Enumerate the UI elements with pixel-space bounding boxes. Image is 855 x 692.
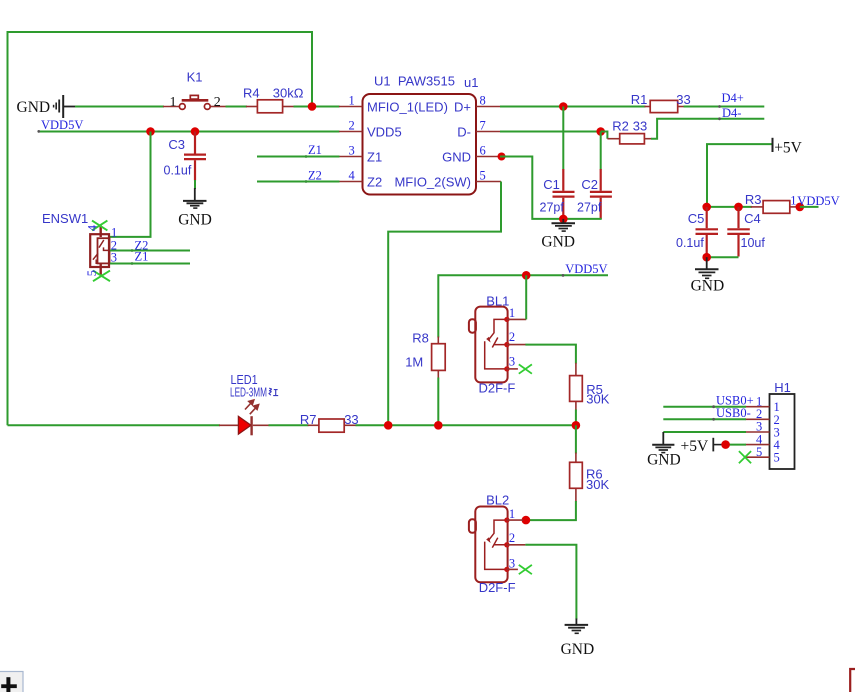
wire: junction down to R6 <box>575 425 577 453</box>
svg-text:7: 7 <box>480 118 486 132</box>
resistor R7 33 <box>300 412 359 432</box>
svg-text:3: 3 <box>509 557 515 571</box>
wire: VDD5V rail to U1 pin 2 <box>40 131 340 133</box>
svg-text:30K: 30K <box>586 477 609 492</box>
svg-text:1: 1 <box>111 225 117 239</box>
junction node VDD5V / BL1 pin1 <box>522 271 531 280</box>
earth ground symbol (below BL2) <box>561 619 595 658</box>
no-connect X at H1 pin5 <box>739 451 751 463</box>
H1 pin 5 <box>746 456 770 458</box>
svg-text:Z1: Z1 <box>367 150 382 165</box>
capacitor C1 27pf <box>540 107 575 220</box>
rotary encoder switch ENSW1 <box>42 211 117 281</box>
net label Z1 (ENSW1 side) <box>131 249 149 265</box>
svg-text:1: 1 <box>509 507 515 521</box>
U1 pin 2 VDD5 <box>339 131 363 133</box>
svg-text:C1: C1 <box>543 177 560 192</box>
power port +5V (at H1 pin4, bar style) <box>681 438 723 455</box>
svg-text:MFIO_2(SW): MFIO_2(SW) <box>394 175 471 190</box>
svg-text:D2F-F: D2F-F <box>479 580 516 595</box>
wire: R6 down to BL2 pin1 <box>527 501 576 520</box>
svg-text:33: 33 <box>633 119 647 134</box>
wire: BL1 pin2 over to R5 <box>525 345 576 364</box>
wire: R8 down to LED row <box>437 378 439 426</box>
svg-text:33: 33 <box>676 92 690 107</box>
wire: +5V to H1 pin4 <box>722 444 746 446</box>
junction node U1 pin6 <box>498 153 506 161</box>
svg-text:R8: R8 <box>412 330 429 345</box>
svg-text:R2: R2 <box>612 119 629 134</box>
power ground symbol GND (left, bar style) <box>17 95 77 118</box>
junction node VDD5V / C3 <box>191 127 200 136</box>
junction node +5V / C4 <box>734 203 743 212</box>
svg-text:27pf: 27pf <box>540 201 565 215</box>
resistor R5 30K <box>570 363 610 411</box>
svg-text:VDD5V: VDD5V <box>41 118 83 132</box>
wire: net VDD5V stub at R3 <box>800 206 819 208</box>
net label Z1 (U1 side) <box>305 143 322 158</box>
svg-text:D2F-F: D2F-F <box>479 381 516 396</box>
svg-text:30K: 30K <box>586 392 609 407</box>
svg-text:ENSW1: ENSW1 <box>42 211 88 226</box>
net label USB0+ <box>712 394 753 409</box>
wire: D- from U1 pin7 to C2/R2 <box>500 131 601 133</box>
wire: R4 to U1 pin 1 <box>294 106 340 108</box>
svg-text:u1: u1 <box>464 75 478 90</box>
microswitch BL2 <box>469 492 532 595</box>
earth ground symbol (below C3) <box>178 188 212 229</box>
junction node R4 / U1 pin1 <box>308 102 317 111</box>
svg-text:VDD5: VDD5 <box>367 125 402 140</box>
junction node LED row / U1 pin5 <box>384 421 393 430</box>
earth ground symbol (at H1 pin3) <box>647 432 681 468</box>
svg-text:5: 5 <box>756 445 762 459</box>
svg-text:GND: GND <box>647 451 681 468</box>
LED LED1 LED-3MM red <box>219 372 278 435</box>
resistor R3 <box>745 192 798 213</box>
svg-text:C3: C3 <box>168 137 185 152</box>
svg-text:5: 5 <box>480 168 486 182</box>
svg-text:0.1uf: 0.1uf <box>676 236 704 250</box>
svg-text:LED-3MM: LED-3MM <box>230 385 267 400</box>
op-amp-style IC U1 PAW3515 <box>339 74 501 195</box>
wire: ENSW1 pin1 riser to VDD5V <box>110 132 151 237</box>
wire: LED1 to R7 <box>269 424 309 426</box>
microswitch BL1 <box>469 293 532 395</box>
svg-text:R7: R7 <box>300 412 317 427</box>
wire: R5 down to LED row <box>575 410 577 426</box>
net label D4+ <box>718 91 744 108</box>
resistor R8 1M <box>405 330 445 378</box>
U1 pin 1 MFIO_1(LED) <box>339 106 363 108</box>
earth ground symbol (below C1/C2) <box>541 219 575 251</box>
svg-text:5: 5 <box>85 270 99 276</box>
junction node +5V / C5 <box>702 203 711 212</box>
wire: net MFIO_1 left loop (LED row to K1 row) <box>8 32 313 425</box>
wire: net Z1 stub at ENSW1 <box>110 263 190 265</box>
net label VDD5V (mid) <box>562 262 608 277</box>
wire: D+ from U1 pin8 to R1 <box>500 106 646 108</box>
svg-text:R4: R4 <box>243 85 260 100</box>
svg-text:Z1: Z1 <box>135 249 149 263</box>
wire: net USB0+ into H1 pin1 <box>663 406 746 408</box>
net label Z2 (ENSW1 side) <box>131 238 149 252</box>
junction node D+ / C1 <box>559 102 568 111</box>
svg-text:6: 6 <box>480 143 486 157</box>
wire: U1 pin5 MFIO_2(SW) down-around to LED row <box>388 182 501 426</box>
svg-text:C2: C2 <box>581 177 598 192</box>
svg-text:1: 1 <box>509 306 515 320</box>
wire: VDD5V mid rail <box>438 274 608 276</box>
svg-text:GND: GND <box>561 641 595 658</box>
selection rectangle corner (bottom right) <box>850 669 855 692</box>
connector H1 <box>746 380 795 469</box>
svg-text:C4: C4 <box>744 211 761 226</box>
svg-text:+5V: +5V <box>774 139 802 156</box>
svg-text:4: 4 <box>86 224 100 231</box>
wire: BL2 pin2 to GND <box>525 545 576 620</box>
svg-text:1: 1 <box>790 194 796 208</box>
svg-text:Z2: Z2 <box>308 169 322 183</box>
H1 pin 4 <box>746 444 770 446</box>
svg-text:GND: GND <box>442 150 471 165</box>
junction node R3 / VDD5V stub <box>796 203 805 212</box>
wire: R2 up to net D4- <box>651 119 764 139</box>
wire: net USB0- into H1 pin2 <box>663 418 746 420</box>
svg-text:C5: C5 <box>688 211 705 226</box>
svg-text:3: 3 <box>349 143 355 157</box>
junction node D- / C2 <box>596 127 605 136</box>
wire: D- jog into R2 <box>601 132 608 139</box>
wire: net Z1 into U1 pin3 <box>257 156 340 158</box>
wire: K1 pin2 to R4 <box>226 106 248 108</box>
U1 pin 7 D- <box>476 131 501 133</box>
svg-text:2: 2 <box>349 118 355 132</box>
earth ground symbol (below C5/C4) <box>691 257 725 294</box>
wire: C4 bottom to C5 bottom <box>707 256 739 258</box>
net label VDD5V (left) <box>37 118 83 133</box>
svg-text:D-: D- <box>457 125 471 140</box>
junction node +5V / H1 pin4 <box>721 440 730 449</box>
capacitor C4 10uf <box>727 207 765 257</box>
svg-text:D+: D+ <box>454 100 471 115</box>
U1 pin 8 D+ <box>476 106 501 108</box>
power port +5V (top right, bar style) <box>773 138 803 157</box>
svg-text:2: 2 <box>509 330 515 344</box>
svg-text:1: 1 <box>349 93 355 107</box>
junction node C1 bottom / GND <box>559 215 568 224</box>
capacitor C2 27pf <box>577 132 612 220</box>
svg-text:H1: H1 <box>774 380 791 395</box>
wire: LED row left segment <box>8 424 221 426</box>
resistor R6 30K <box>570 453 610 502</box>
svg-text:2: 2 <box>509 531 515 545</box>
wire: BL1 pin1 to VDD5V <box>525 275 527 319</box>
resistor R4 30kOhm <box>243 85 304 112</box>
svg-text:3: 3 <box>509 355 515 369</box>
svg-text:MFIO_1(LED): MFIO_1(LED) <box>367 100 448 115</box>
svg-text:GND: GND <box>178 212 212 229</box>
wire: H1 pin3 to GND <box>663 431 746 433</box>
capacitor C5 0.1uf <box>676 207 718 257</box>
svg-text:5: 5 <box>774 451 780 465</box>
svg-text:GND: GND <box>541 234 575 251</box>
svg-text:2: 2 <box>214 95 221 110</box>
svg-text:27pf: 27pf <box>577 201 602 215</box>
svg-text:8: 8 <box>480 93 486 107</box>
svg-text:USB0-: USB0- <box>716 406 751 420</box>
svg-text:D4-: D4- <box>722 106 741 120</box>
junction node C5 bottom / GND <box>702 253 711 262</box>
resistor R1 33 <box>631 92 691 112</box>
U1 pin 4 Z2 <box>339 181 363 183</box>
H1 pin 1 <box>746 406 770 408</box>
U1 pin 6 GND <box>476 156 501 158</box>
svg-text:30kΩ: 30kΩ <box>273 85 304 100</box>
svg-text:D4+: D4+ <box>722 91 744 105</box>
wire: +5V riser (top right) <box>707 144 772 207</box>
svg-text:GND: GND <box>17 99 51 116</box>
svg-text:R3: R3 <box>745 192 762 207</box>
switch K1 (tact switch) <box>163 70 226 111</box>
svg-text:K1: K1 <box>187 70 203 85</box>
svg-text:VDD5V: VDD5V <box>797 194 839 208</box>
svg-text:U1 PAW3515: U1 PAW3515 <box>374 74 455 89</box>
svg-text:GND: GND <box>691 277 725 294</box>
wire: U1 pin6 GND to C1/C2 bottoms <box>500 157 602 219</box>
capacitor C3 0.1uf <box>164 132 207 181</box>
svg-text:Z2: Z2 <box>367 175 382 190</box>
U1 pin 5 MFIO_2(SW) <box>476 181 501 183</box>
H1 pin 2 <box>746 418 770 420</box>
svg-text:R1: R1 <box>631 92 648 107</box>
wire: R7 to R5/R6 column <box>356 424 576 426</box>
toolbar add button (+) bottom left <box>0 672 23 692</box>
svg-text:4: 4 <box>349 168 356 182</box>
net label Z2 (U1 side) <box>305 169 322 183</box>
svg-text:BL2: BL2 <box>486 492 509 507</box>
svg-text:Z1: Z1 <box>308 143 322 157</box>
resistor R2 33 <box>607 119 652 144</box>
svg-text:VDD5V: VDD5V <box>565 262 607 276</box>
junction node LED row / R5 / R6 <box>572 421 581 430</box>
H1 pin 3 <box>746 431 770 433</box>
wire: R1 to net D4+ <box>684 106 765 108</box>
net label USB0- <box>712 406 751 421</box>
junction node VDD5V / ENSW1 branch <box>146 127 155 136</box>
wire: GND to K1 pin1 <box>75 106 164 108</box>
wire: net Z2 into U1 pin4 <box>257 181 340 183</box>
svg-text:+5V: +5V <box>681 438 709 455</box>
wire: C3 to GND <box>194 180 196 189</box>
svg-text:10uf: 10uf <box>741 236 766 250</box>
svg-text:1: 1 <box>170 95 177 110</box>
svg-text:0.1uf: 0.1uf <box>164 164 192 178</box>
wire: net Z2 stub at ENSW1 <box>110 250 190 252</box>
junction node LED row / R8 <box>434 421 443 430</box>
svg-text:1M: 1M <box>405 354 423 369</box>
wire: VDD5V down to R8 <box>437 274 439 337</box>
U1 pin 3 Z1 <box>339 156 363 158</box>
net label D4- <box>718 106 741 120</box>
wire: +5V node to R3 <box>707 206 752 208</box>
junction node BL2 pin1 <box>522 516 531 525</box>
